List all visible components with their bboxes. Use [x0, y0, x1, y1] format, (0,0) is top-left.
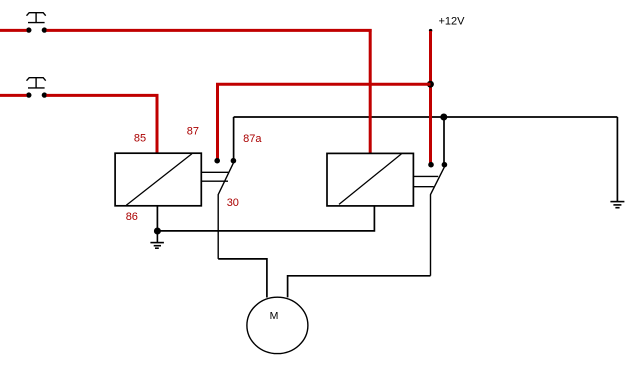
K2 terminal 87 dot — [428, 162, 434, 168]
svg-text:M: M — [270, 310, 279, 322]
wire: K1 30 down and over to motor — [218, 259, 267, 298]
junction dot on 87a bus — [440, 114, 447, 121]
ground (left, under K1) — [150, 231, 164, 248]
switch S1 (push-button, top left) — [27, 13, 46, 23]
K2 terminal 87a dot — [442, 162, 448, 168]
switch S2 (push-button, lower left) — [27, 78, 46, 88]
motor M1 circle — [247, 297, 308, 353]
relay K1 coil diagonal — [126, 154, 192, 206]
K1 terminal 87a dot — [231, 158, 237, 164]
relay K2 coil diagonal — [339, 154, 401, 205]
S2 contact dot right — [42, 92, 47, 97]
wire: drop from bus junction to right relay 87a — [443, 117, 445, 165]
wire red: vertical drop to right relay coil top — [369, 29, 372, 153]
K1 actuator link lines — [201, 172, 228, 181]
wire: 86 bus from ground node to relay K2 86 — [157, 206, 374, 231]
junction dot on +12V line — [427, 81, 434, 88]
svg-text:86: 86 — [126, 211, 138, 223]
wire red: left feed into S1 — [0, 29, 27, 32]
svg-text:87: 87 — [187, 126, 199, 138]
svg-text:87a: 87a — [243, 133, 262, 145]
K1 terminal 87 dot — [214, 158, 220, 164]
wire red: left feed into S2 — [0, 94, 27, 97]
+12V terminal dot — [429, 29, 432, 32]
wire red: +12V vertical down to relay 2 terminal 87 — [429, 31, 432, 165]
wire: K2 30 down and over to motor — [288, 276, 431, 298]
svg-text:85: 85 — [134, 133, 146, 145]
wire: K1 coil bottom (86) down to ground node — [156, 206, 158, 231]
K2 actuator link lines — [413, 176, 438, 186]
wire red: S1 to right relay coil (terminal 85), horizontal run — [46, 29, 371, 32]
S2 contact dot left — [26, 92, 31, 97]
relay K1 coil box — [115, 153, 201, 206]
wire: 87a bus (black) across top — [234, 116, 618, 118]
wire red: branch from +12V to left relay terminal 87 — [218, 84, 431, 161]
wire: drop from bus to left relay 87a — [233, 117, 235, 161]
ground (right) — [610, 202, 624, 208]
S1 contact dot right — [42, 27, 47, 32]
junction dot at ground node — [154, 228, 161, 235]
wire: bus right end drop to ground — [616, 117, 618, 202]
relay K2 coil box — [327, 153, 413, 206]
wire red: S2 to left relay coil (terminal 85) — [46, 95, 157, 153]
K1 armature (30 to 87a) — [218, 163, 233, 259]
K2 armature (30 to 87a) — [431, 167, 445, 276]
svg-text:+12V: +12V — [439, 16, 466, 28]
svg-text:30: 30 — [227, 197, 239, 209]
S1 contact dot left — [26, 27, 31, 32]
